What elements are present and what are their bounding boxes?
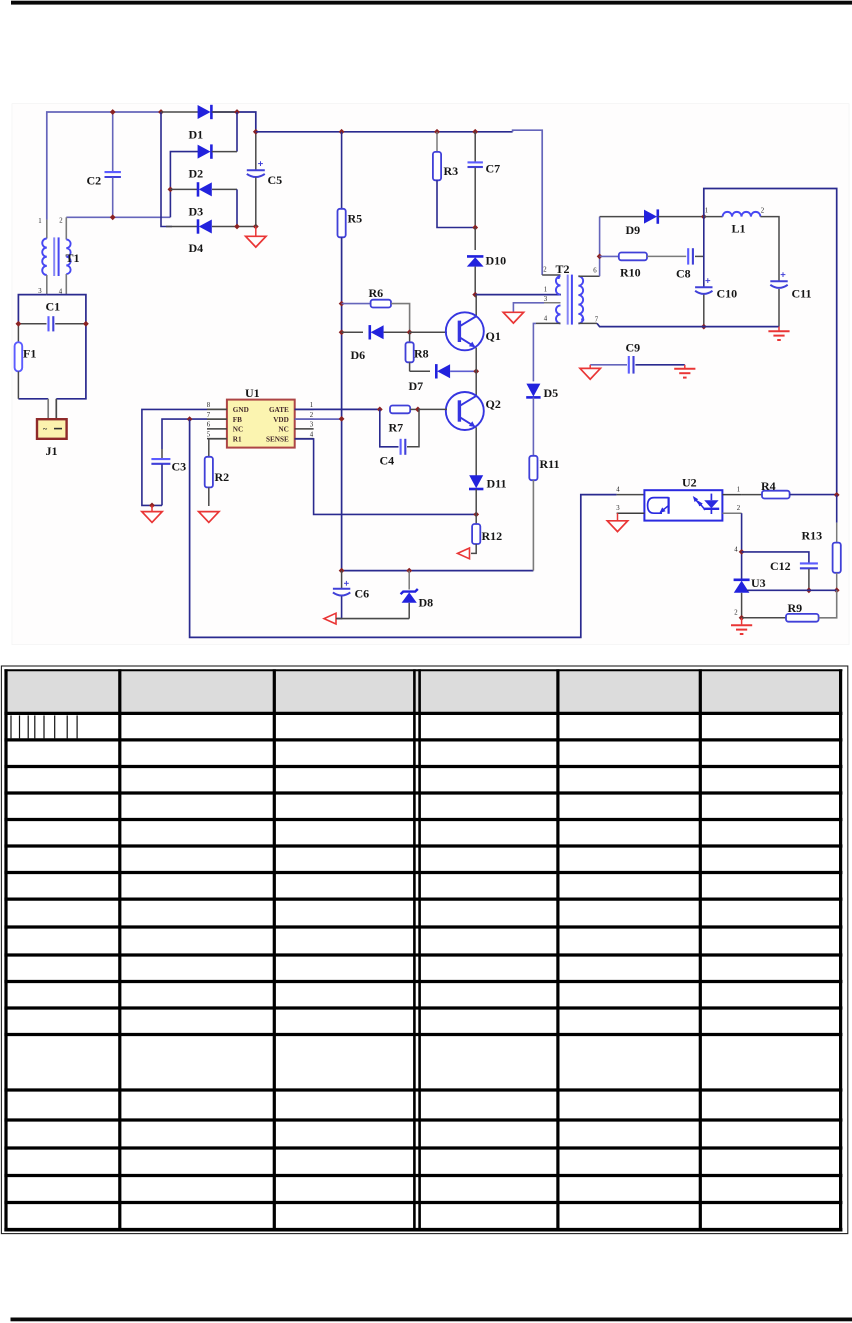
svg-text:R4: R4 [761, 479, 776, 493]
capacitor C8 snubber [676, 248, 704, 280]
svg-text:C3: C3 [172, 460, 187, 474]
svg-text:R2: R2 [215, 470, 230, 484]
svg-text:D5: D5 [544, 386, 559, 400]
resistor R4 [742, 479, 837, 499]
transistor Q2 [446, 371, 501, 476]
junction [739, 549, 745, 555]
wire T2 aux to D5 [533, 323, 536, 381]
svg-text:D11: D11 [487, 477, 507, 491]
page bottom rule [11, 1318, 852, 1322]
svg-text:D8: D8 [419, 596, 434, 610]
svg-text:C1: C1 [46, 300, 61, 314]
junction [407, 329, 413, 335]
junction [434, 129, 440, 135]
svg-text:D7: D7 [409, 379, 424, 393]
capacitor C11 [770, 272, 811, 326]
diode D7 [409, 364, 477, 393]
svg-text:R5: R5 [348, 212, 363, 226]
junction [701, 214, 707, 220]
svg-text:4: 4 [544, 316, 548, 323]
capacitor C4 [380, 409, 420, 467]
svg-text:D1: D1 [189, 128, 204, 142]
power port C6 return [324, 613, 336, 624]
transformer T1 [38, 217, 79, 295]
svg-text:C7: C7 [486, 162, 501, 176]
junction [110, 214, 116, 220]
svg-text:2: 2 [761, 208, 765, 215]
inductor L1 [704, 208, 779, 281]
resistor R8 [406, 332, 429, 371]
wire C6/D8 bottom link [336, 618, 409, 620]
svg-text:Q2: Q2 [486, 397, 501, 411]
page top rule [11, 1, 852, 5]
ground U1/C3 [142, 512, 162, 523]
svg-text:U2: U2 [682, 476, 697, 490]
junction [834, 492, 840, 498]
wire bridge left leg D2-D3 [170, 152, 198, 218]
junction [83, 321, 89, 327]
svg-text:D3: D3 [189, 205, 204, 219]
resistor R12 [471, 514, 502, 553]
junction [739, 615, 745, 621]
svg-text:2: 2 [737, 505, 741, 512]
junction [16, 321, 22, 327]
svg-text:C4: C4 [380, 454, 395, 468]
wire U1 GATE to driver [295, 408, 380, 410]
wire FB to opto route [190, 419, 617, 637]
resistor R6 [342, 286, 410, 332]
junction [149, 503, 155, 509]
svg-text:4: 4 [734, 547, 738, 554]
junction [339, 129, 345, 135]
svg-text:C2: C2 [87, 174, 102, 188]
junction [158, 109, 164, 115]
svg-text:R12: R12 [482, 529, 503, 543]
svg-text:NC: NC [233, 426, 243, 434]
wire bridge + output to C5 [212, 112, 256, 132]
svg-text:2: 2 [734, 610, 738, 617]
junction [253, 224, 259, 230]
junction [806, 587, 812, 593]
svg-text:VDD: VDD [273, 416, 289, 424]
ground primary bulk [246, 236, 266, 247]
junction [253, 129, 259, 135]
wire VDD startup column [341, 237, 343, 570]
resistor R9 [742, 590, 837, 621]
svg-text:7: 7 [207, 412, 211, 419]
svg-text:SENSE: SENSE [266, 435, 289, 443]
svg-text:T1: T1 [66, 251, 80, 265]
ground U3 [731, 625, 752, 634]
capacitor C7 [468, 132, 501, 228]
resistor R13 [802, 495, 841, 590]
diode D8 zener [401, 571, 434, 619]
junction [168, 187, 174, 193]
svg-text:R11: R11 [540, 457, 560, 471]
diode D4 [166, 219, 256, 255]
svg-text:8: 8 [207, 402, 211, 409]
svg-text:C5: C5 [268, 173, 283, 187]
wire U1 FB net [207, 418, 227, 420]
diode D11 [469, 475, 507, 514]
wire secondary 0V rail [597, 323, 779, 326]
svg-text:4: 4 [616, 487, 620, 494]
svg-text:6: 6 [593, 268, 597, 275]
svg-text:FB: FB [233, 416, 242, 424]
junction [472, 129, 478, 135]
diode D3 [170, 182, 237, 218]
wire main + rail [256, 131, 513, 133]
ground secondary C11 [768, 331, 789, 340]
svg-text:3: 3 [310, 422, 314, 429]
diode D1 [161, 105, 211, 142]
capacitor C1 [18, 300, 86, 332]
shunt regulator U3 [734, 547, 766, 618]
capacitor C3 [151, 449, 186, 505]
svg-text:1: 1 [705, 208, 708, 215]
wire U1 SENSE net [295, 439, 477, 515]
junction [473, 368, 479, 374]
capacitor C6 [333, 571, 369, 619]
wire D1 cathode to +: [212, 111, 237, 113]
power port R12 return [458, 548, 470, 559]
resistor R5 [338, 132, 363, 238]
svg-text:1: 1 [310, 402, 313, 409]
svg-text:R1: R1 [233, 435, 242, 443]
svg-text:6: 6 [207, 422, 211, 429]
capacitor C2 [87, 112, 121, 217]
svg-text:L1: L1 [732, 222, 746, 236]
diode D6 [342, 325, 410, 362]
junction [234, 224, 240, 230]
BOM table [1, 666, 847, 1234]
svg-text:C8: C8 [676, 267, 691, 281]
svg-text:R3: R3 [444, 164, 459, 178]
svg-text:C11: C11 [792, 287, 812, 301]
ground C9 primary side [580, 368, 600, 379]
capacitor C9 Y-cap [590, 341, 685, 374]
capacitor C10 [695, 217, 737, 327]
svg-text:C12: C12 [770, 559, 791, 573]
svg-text:GATE: GATE [269, 406, 289, 414]
ground T2 pin3 [503, 312, 523, 323]
wire T1 to bridge AC2 [66, 216, 170, 218]
svg-text:2: 2 [310, 412, 314, 419]
diode D9 [600, 209, 704, 237]
svg-text:R9: R9 [788, 601, 803, 615]
svg-text:1: 1 [544, 287, 547, 294]
junction [406, 568, 412, 574]
transformer T2 [536, 262, 600, 325]
junction [415, 407, 421, 413]
wire switch node to T2 primary [475, 294, 561, 296]
svg-text:U3: U3 [751, 576, 766, 590]
svg-text:7: 7 [595, 317, 599, 324]
junction [834, 587, 840, 593]
svg-text:F1: F1 [23, 347, 36, 361]
svg-text:D10: D10 [486, 254, 507, 268]
ground R2 [199, 512, 219, 523]
wire AC line top-left [47, 112, 161, 220]
junction [187, 416, 193, 422]
wire T2 pin3 to primary ground [513, 303, 544, 313]
resistor R7 [389, 406, 418, 435]
svg-text:4: 4 [310, 431, 314, 438]
transistor Q1 [446, 295, 501, 372]
wire secondary top from T2 pin6 [599, 217, 601, 277]
wire U2 pin2 to U3 [741, 513, 743, 579]
junction [701, 324, 707, 330]
svg-text:D9: D9 [626, 223, 641, 237]
svg-text:Q1: Q1 [486, 329, 501, 343]
connector J1 [37, 399, 67, 458]
svg-text:R10: R10 [620, 266, 641, 280]
svg-text:D6: D6 [351, 348, 366, 362]
junction [472, 292, 478, 298]
svg-text:R8: R8 [414, 347, 429, 361]
junction [339, 568, 345, 574]
junction [377, 407, 383, 413]
junction [339, 416, 345, 422]
svg-text:R6: R6 [369, 286, 384, 300]
wire C1 loop box [18, 295, 46, 324]
wire D2 cathode riser [236, 112, 238, 152]
svg-text:C9: C9 [626, 341, 641, 355]
junction [339, 329, 345, 335]
wire U2 pin3 to ground [617, 513, 619, 521]
wire output top rail [704, 189, 837, 495]
wire U1 GND net [207, 408, 227, 410]
svg-text:R13: R13 [802, 529, 823, 543]
svg-text:T2: T2 [556, 262, 570, 276]
wire to Q1 base [410, 331, 447, 333]
fuse F1 [15, 324, 37, 399]
junction [339, 301, 345, 307]
svg-text:C6: C6 [355, 587, 370, 601]
junction [110, 109, 116, 115]
capacitor C12 [742, 552, 818, 590]
junction [472, 225, 478, 231]
ground C9 secondary side [674, 369, 695, 378]
wire U1 VDD stub [295, 418, 342, 420]
optocoupler U2 [616, 476, 741, 521]
wire U3 ref node [747, 589, 837, 591]
junction [473, 512, 479, 518]
svg-text:U1: U1 [245, 386, 260, 400]
svg-text:C10: C10 [717, 287, 738, 301]
svg-text:3: 3 [616, 505, 620, 512]
svg-text:R7: R7 [389, 421, 404, 435]
svg-text:2: 2 [59, 218, 63, 225]
wire bridge left leg D1-D4 [161, 112, 172, 227]
capacitor C5 [247, 132, 282, 227]
diode D5 [526, 384, 558, 400]
svg-text:NC: NC [278, 426, 288, 434]
svg-text:2: 2 [543, 267, 547, 274]
diode D2 [189, 144, 238, 180]
wire R7 to Q2 base [418, 408, 447, 410]
wire D3 to D4 riser [236, 189, 238, 226]
IC U1 controller [207, 386, 314, 448]
svg-text:D4: D4 [189, 241, 204, 255]
svg-text:3: 3 [544, 296, 548, 303]
resistor R10 [600, 253, 687, 280]
resistor R11 [529, 397, 559, 570]
wire VDD aux rail [342, 570, 534, 572]
wire C5 to ground [255, 227, 257, 237]
resistor R2 [205, 439, 229, 506]
junction [597, 254, 603, 260]
resistor R3 [433, 132, 475, 228]
svg-text:D2: D2 [189, 167, 204, 181]
svg-text:1: 1 [737, 487, 740, 494]
schematic scan area [12, 104, 849, 645]
svg-text:GND: GND [233, 406, 249, 414]
svg-text:5: 5 [207, 431, 211, 438]
svg-text:J1: J1 [46, 444, 58, 458]
ground U2 pin3 [607, 521, 627, 532]
diode D10 [467, 228, 506, 295]
junction [234, 109, 240, 115]
svg-text:1: 1 [38, 218, 41, 225]
